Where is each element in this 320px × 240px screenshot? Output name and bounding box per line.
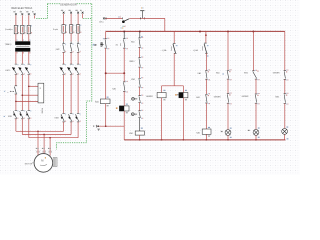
wire L1 fuse to transformer	[15, 34, 17, 42]
contact b7 A	[252, 70, 254, 72]
node motor tap U	[37, 130, 39, 132]
pushbutton MARCHA1	[138, 95, 140, 97]
transformer pin specks L3	[29, 39, 30, 42]
wire L2 terminal to fuse	[21, 15, 23, 25]
node bottom rail x256.0	[255, 139, 257, 141]
wire b2 rail to S1	[123, 31, 125, 38]
speck coil B label	[175, 94, 177, 95]
fuse F5	[70, 25, 72, 33]
node top rail x139.8	[139, 31, 141, 33]
wire supply to switch	[105, 17, 122, 19]
node L2 tap	[21, 94, 23, 96]
wire motor drop V	[43, 135, 45, 154]
wire b2 to timer	[123, 91, 125, 106]
wire G1 fuse to KM2a	[63, 33, 65, 42]
svg-text:KM2: KM2	[131, 79, 135, 81]
wire b3 c4-c5	[139, 103, 141, 111]
wire bus phase3	[29, 137, 78, 139]
switch Q10 tick	[121, 18, 123, 20]
wire post to rail drop	[142, 17, 165, 19]
lamp H3	[282, 129, 288, 135]
supply tick A	[105, 17, 107, 19]
speck row B	[4, 116, 5, 117]
wire number speck b3	[141, 36, 142, 37]
wire tap L1 to phase relay	[16, 100, 38, 102]
supply minus terminal	[96, 125, 98, 128]
motor M1 circle	[34, 154, 53, 173]
wire number specks b1	[103, 38, 104, 39]
wire L2 transformer to KM1 pole	[21, 52, 23, 64]
supply post bar	[140, 10, 144, 12]
transformer T1 core line	[16, 45, 29, 47]
svg-text:24Vcc: 24Vcc	[99, 22, 104, 24]
breaker F11	[204, 42, 207, 44]
transformer T1 primary bar	[15, 41, 30, 45]
node bottom rail x183.4	[183, 139, 185, 141]
ground rung wire	[97, 125, 124, 127]
fuse F3	[28, 25, 30, 33]
motor terminal ticks	[37, 151, 51, 153]
earth arrow	[97, 129, 100, 132]
lamp H1	[225, 130, 231, 136]
contactor KM2 lower pole 3	[77, 112, 79, 114]
coil KA2	[202, 129, 211, 134]
wire b5 breaker to cA	[205, 53, 207, 70]
node ground rung	[105, 125, 107, 127]
svg-text:KM1: KM1	[244, 72, 248, 74]
fuse F2	[21, 25, 23, 33]
wire G1 to motor bus	[63, 122, 65, 131]
wire bus phase1	[16, 130, 64, 132]
wire b2 S1 to rung	[123, 48, 125, 73]
node motor tap V	[43, 134, 45, 136]
switch Q10 specks	[118, 17, 119, 18]
terminal gen G2	[70, 12, 72, 14]
wire G1 terminal to fuse	[63, 14, 65, 25]
terminal X1 (mains L1)	[15, 13, 17, 15]
wire L3 below KM1	[28, 75, 30, 111]
contact b5 B	[205, 93, 207, 95]
wire motor drop U	[37, 131, 39, 155]
wire G3 terminal to fuse	[77, 14, 79, 25]
fuse F6	[77, 25, 79, 33]
speck A1 b3	[141, 128, 143, 129]
wire gen N stub	[82, 14, 84, 19]
lamp H2	[253, 130, 259, 136]
node top rail x253.4	[252, 31, 254, 33]
node top rail x200.0	[199, 31, 201, 33]
node motor tap W	[49, 137, 51, 139]
contactor KM2 lower pole 1	[62, 112, 64, 114]
wire b8 cA-cB	[284, 79, 286, 94]
generator dashed boundary left	[35, 4, 47, 19]
generator label backing	[60, 2, 76, 5]
terminal X3 (mains L3)	[28, 13, 30, 15]
wire b5 rail to breaker	[205, 31, 207, 43]
generator dashed boundary bottom	[57, 143, 87, 150]
wire G1 between KM2 rows	[63, 52, 65, 64]
wire L1 transformer to KM1 pole	[15, 52, 17, 64]
fuse F4	[63, 25, 65, 33]
node bottom rail x206.4	[206, 139, 208, 141]
contactor KM2 upper pole 3	[77, 42, 79, 44]
grid background	[0, 0, 300, 175]
wire coil B stub top	[182, 86, 184, 93]
supply post stem	[141, 11, 143, 18]
wire b2 timer to bottom rail	[123, 111, 125, 140]
transformer T1 secondary bar	[15, 48, 30, 52]
contactor KM2 upper pole 1	[63, 42, 65, 44]
node L3 tap	[28, 85, 30, 87]
terminal gen N	[82, 12, 84, 14]
contact b5 A	[205, 70, 207, 72]
contactor KM2 mid pole 2	[70, 63, 72, 65]
wire G1 to lower contacts	[63, 75, 65, 114]
wire b8 lamp to rail	[284, 134, 286, 139]
wire G2 to motor bus	[70, 122, 72, 135]
seal rung wire	[106, 72, 125, 74]
gen N dashed link	[83, 17, 92, 19]
wire G3 fuse to KM2a	[77, 33, 79, 42]
phase relay F7 box	[38, 83, 44, 103]
wire b3 c1-c2	[139, 47, 141, 57]
wire b5 cB to coil	[205, 103, 207, 129]
wire switch to post	[130, 17, 143, 19]
pushbutton S0 (E-stop)	[105, 38, 107, 40]
wire b1 coil to ground rung	[105, 104, 107, 127]
wire b8 cB to lamp	[284, 103, 286, 128]
wire L3 fuse to transformer	[28, 34, 30, 42]
node bottom rail x161.6	[161, 139, 163, 141]
wire L1 terminal to fuse	[15, 15, 17, 25]
wire mains N stub	[34, 15, 36, 18]
contact S1	[123, 38, 125, 40]
wire G3 to lower contacts	[77, 75, 79, 114]
svg-text:KM1: KM1	[275, 96, 279, 98]
wire b6 rail to cA	[227, 31, 229, 70]
contactor KM1 lower pole 2	[21, 109, 23, 111]
svg-text:s: s	[7, 92, 8, 94]
wire L3 to motor bus	[28, 119, 30, 138]
fuse F1	[15, 25, 17, 33]
node bottom rail x139.6	[139, 139, 141, 141]
coil KA1	[100, 99, 110, 104]
wire bus phase2	[22, 134, 71, 136]
contact b8 A	[284, 70, 286, 72]
wire number specks b2	[121, 28, 122, 29]
node bottom rail x228.0	[227, 139, 229, 141]
motor left stub	[32, 162, 34, 164]
contactor KM2 mid pole 3	[77, 63, 79, 65]
wire L3 terminal to fuse	[28, 15, 30, 25]
wire b7 cA-cB	[255, 79, 257, 94]
contact b8 B	[284, 93, 286, 95]
wire b1 rung to coil	[105, 73, 107, 99]
wire L2 below KM1	[21, 75, 23, 111]
node seal rung left	[105, 72, 107, 74]
breaker Q1 contact on L1	[15, 85, 17, 87]
terminal gen G3	[77, 12, 79, 14]
contactor KM2 upper pole 2	[70, 42, 72, 44]
svg-text:S0: S0	[95, 45, 97, 47]
motor terminal labels	[36, 148, 37, 149]
wire coil A stub top	[161, 86, 163, 93]
node top rail x124.2	[123, 31, 125, 33]
coil KT2 (half black)	[179, 93, 188, 98]
wire b1 rail to S0	[105, 31, 107, 38]
wire tap L2 to phase relay	[22, 94, 38, 96]
terminal XN (mains N)	[34, 13, 36, 15]
speck minus label	[93, 126, 94, 127]
pushbutton MARCHA2	[138, 110, 140, 112]
coil KM2 (GENER)	[157, 93, 166, 98]
contact b7 B	[255, 93, 257, 95]
wire b2 to KA1 contact	[123, 73, 125, 82]
wire b6 lamp to rail	[227, 136, 229, 140]
svg-text:GENER: GENER	[214, 97, 221, 99]
wire L1 below Q1	[15, 94, 17, 110]
wire G3 between KM2 rows	[77, 52, 79, 64]
wire b7 lamp to rail	[255, 135, 257, 139]
contact KM2 interlock	[138, 77, 140, 79]
contact KA1 no1	[138, 37, 140, 39]
supply post junction ticks	[140, 17, 144, 19]
contactor KM1 pole 1	[15, 63, 17, 65]
wire b7 cB to lamp	[255, 103, 257, 129]
wire L3 transformer to KM1 pole	[28, 52, 30, 64]
contact KA1 seal	[123, 81, 125, 83]
motor earth terminal box	[53, 158, 57, 167]
svg-text:GENER: GENER	[273, 73, 280, 75]
wire b4 breaker to rung	[173, 53, 175, 85]
contactor KM2 mid pole 1	[62, 63, 64, 65]
terminal X2 (mains L2)	[21, 13, 23, 15]
svg-text:GENER: GENER	[146, 96, 153, 98]
wire supply drop	[164, 18, 166, 31]
contact PARO	[138, 57, 140, 59]
wire b6 cA-cB	[227, 79, 229, 94]
node top rail x228.0	[227, 31, 229, 33]
svg-text:KM2: KM2	[56, 49, 60, 51]
terminal gen G1	[63, 12, 65, 14]
speck E near boundary	[93, 44, 94, 45]
wire G2 terminal to fuse	[70, 14, 72, 25]
wire b3 c2-c3	[139, 67, 141, 78]
contactor KM1 lower pole 3	[28, 109, 30, 111]
wire motor drop W	[49, 138, 51, 156]
node seal rung right	[123, 72, 125, 74]
switch Q10 blade	[124, 19, 130, 22]
contact b6 B	[227, 93, 229, 95]
contactor KM2 lower pole 2	[70, 112, 72, 114]
wire b1 S0 to rung	[105, 48, 107, 73]
wire b4 rail to breaker	[173, 31, 175, 43]
wire G2 fuse to KM2a	[70, 33, 72, 42]
wire b3 c5 to coil	[139, 118, 141, 131]
svg-text:FUSE: FUSE	[41, 108, 43, 114]
transformer pin specks L2	[23, 39, 24, 42]
contactor KM1 pole 2	[21, 63, 23, 65]
contactor KM1 lower pole 1	[15, 109, 17, 111]
wire b3 coil to rail	[139, 135, 141, 140]
bottom rail	[124, 139, 285, 141]
node branch5 below rail	[205, 34, 207, 36]
wire G2 to lower contacts	[70, 75, 72, 114]
wire L2 to motor bus	[21, 119, 23, 135]
transformer pin specks L1	[17, 39, 18, 42]
coil KM1	[135, 131, 144, 135]
wire G2 between KM2 rows	[70, 52, 72, 64]
wire b3 rail to c1	[139, 31, 141, 38]
contact b6 A	[227, 69, 229, 71]
supply post specks	[141, 7, 142, 8]
wire b8 rail to cA	[284, 31, 286, 70]
svg-text:GENER: GENER	[242, 96, 249, 98]
wire L1 below KM1	[15, 75, 17, 86]
supply terminal X10	[103, 18, 105, 20]
wire b7 rail to cA	[252, 31, 254, 70]
wire L1 to motor bus	[15, 119, 17, 132]
generator dashed boundary right	[87, 4, 92, 143]
switch Q10 pivot	[122, 20, 125, 23]
wire coil A stub bottom	[161, 98, 163, 140]
svg-text:MOTOR: MOTOR	[25, 163, 33, 165]
top rail	[106, 30, 285, 32]
wire b3 c3-c4	[139, 87, 141, 96]
svg-text:S1: S1	[116, 44, 118, 46]
node L1 tap	[15, 101, 17, 103]
svg-text:Fusibles: Fusibles	[5, 29, 12, 31]
breaker F10	[173, 42, 176, 44]
generator dashed boundary top	[47, 3, 91, 5]
wire b5 coil to rail	[205, 134, 207, 140]
coil rung wire	[162, 85, 184, 87]
wire L2 fuse to transformer	[21, 34, 23, 42]
wire b5 cA-cB	[205, 79, 207, 94]
contactor KM1 pole 3	[28, 63, 30, 65]
timer KT1 coil	[119, 106, 129, 111]
wire tap L3 to phase relay	[29, 85, 38, 87]
wire coil B stub bottom	[182, 98, 184, 140]
wire G3 to motor bus	[77, 122, 79, 138]
wire b6 cB to lamp	[227, 103, 229, 129]
